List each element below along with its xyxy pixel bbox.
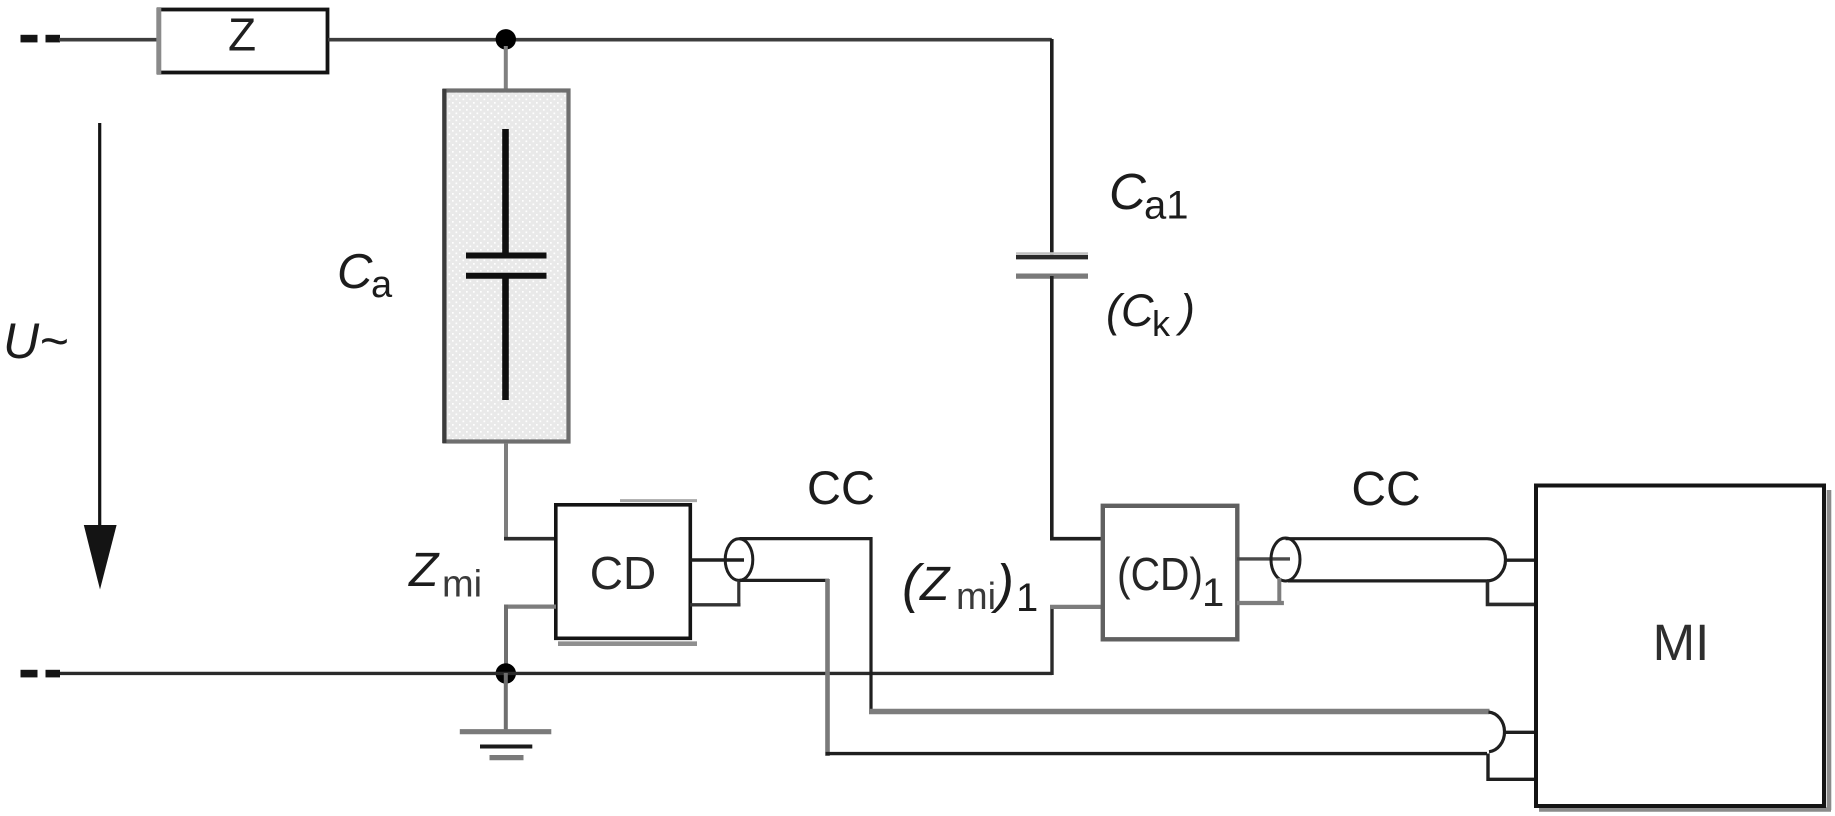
wire top-left to Z xyxy=(59,38,158,42)
svg-text:a: a xyxy=(371,264,393,306)
measuring instrument box MI xyxy=(1536,486,1824,807)
dashed stub top-left xyxy=(21,35,61,43)
label (Zmi)1 xyxy=(902,554,1038,620)
cable CC bottom conductor xyxy=(740,579,1488,756)
svg-text:(CD): (CD) xyxy=(1117,548,1203,600)
MI box shadow xyxy=(1539,490,1831,810)
(CD)1 upper-right pin xyxy=(1237,557,1290,560)
svg-text:C: C xyxy=(1109,163,1147,220)
svg-text:C: C xyxy=(337,245,373,299)
wire Z to Ca1 branch xyxy=(328,38,1052,42)
capacitor Ca1 top wire xyxy=(1050,39,1054,255)
label (Ck) xyxy=(1106,285,1195,344)
node junction bottom xyxy=(496,663,516,683)
lower cable end cap xyxy=(1489,712,1505,752)
impedance box Z xyxy=(159,8,328,74)
capacitor Ca1 plates xyxy=(1016,254,1088,277)
CD upper-right pin xyxy=(690,558,744,561)
label Ca1 xyxy=(1109,163,1189,228)
cable CC2 top conductor xyxy=(1286,537,1488,540)
wire node to Ca box xyxy=(504,46,508,91)
svg-text:k: k xyxy=(1152,303,1171,344)
svg-text:a1: a1 xyxy=(1144,184,1189,228)
svg-text:mi: mi xyxy=(956,576,996,618)
svg-text:): ) xyxy=(1175,285,1195,336)
bottom rail wire xyxy=(59,672,1052,675)
coax connector ellipse at (CD)1 xyxy=(1271,538,1300,581)
svg-text:mi: mi xyxy=(442,564,482,606)
node junction top xyxy=(496,29,516,49)
(CD)1 lower-right pin xyxy=(1237,578,1284,605)
capacitor Ca shaded body xyxy=(444,89,568,443)
svg-text:(C: (C xyxy=(1106,285,1154,336)
cable CC2 bottom conductor xyxy=(1288,579,1488,582)
svg-text:Z: Z xyxy=(228,9,256,61)
svg-text:CD: CD xyxy=(590,547,656,599)
dashed stub bottom-left xyxy=(21,670,61,678)
capacitor Ca symbol xyxy=(466,129,547,400)
svg-text:1: 1 xyxy=(1016,576,1038,620)
CD box shadow xyxy=(558,501,697,644)
label Ca xyxy=(337,245,393,306)
rail to (CD)1 lower pin xyxy=(1050,605,1104,675)
cable CC2 end cap xyxy=(1487,539,1506,581)
cable CC shield run (gray) xyxy=(869,709,1490,714)
svg-text:Z: Z xyxy=(919,558,951,611)
svg-text:CC: CC xyxy=(807,461,875,514)
cable CC top conductor xyxy=(740,539,872,711)
cable CC2 stub to MI xyxy=(1505,559,1538,562)
wire Ca1 to (CD)1 upper pin xyxy=(1050,537,1104,541)
CD lower-right pin xyxy=(690,580,741,607)
CD lower-left pin xyxy=(504,605,556,674)
svg-text:CC: CC xyxy=(1351,463,1420,516)
wire Ca box to CD upper pin xyxy=(504,443,556,541)
converter box (CD)1 xyxy=(1103,506,1238,640)
cable CC2 lower stub to MI xyxy=(1488,581,1538,605)
lower cable stub to MI xyxy=(1504,731,1537,734)
converter box CD xyxy=(556,505,691,639)
label Zmi xyxy=(408,544,482,606)
coax connector ellipse at CD xyxy=(725,539,753,581)
svg-text:MI: MI xyxy=(1653,614,1710,671)
ground xyxy=(460,673,552,758)
capacitor Ca1 bottom wire xyxy=(1050,276,1054,541)
svg-text:Z: Z xyxy=(408,544,440,597)
svg-text:1: 1 xyxy=(1202,571,1224,615)
lower cable lower stub to MI xyxy=(1488,754,1537,780)
source arrow U~ xyxy=(84,123,117,590)
svg-text:U~: U~ xyxy=(3,313,68,369)
